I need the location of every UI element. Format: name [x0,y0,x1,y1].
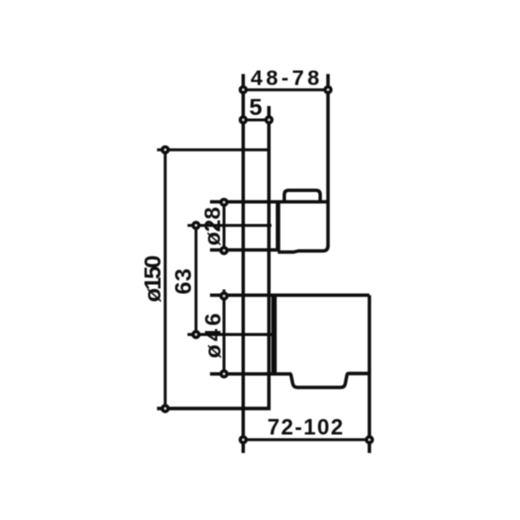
terminator dot 5 right [266,117,272,123]
lower handle front face / extension line [368,295,371,453]
lower handle bottom edge with spout notch / extension line [210,374,369,388]
svg-text:ø46: ø46 [201,313,226,358]
svg-text:63: 63 [170,269,196,295]
extension line o150 top [157,148,271,151]
terminator dot o28 bottom [221,248,227,254]
terminator dot o150 top [162,147,168,153]
svg-text:ø150: ø150 [140,255,166,302]
terminator dot o46 top [221,293,227,299]
terminator dot 72-102 left [240,437,246,443]
terminator dot 72-102 right [367,437,373,443]
wall plate back vertical line [241,74,244,453]
dimension line 72-102 [243,438,369,441]
dimension line o28 [223,199,226,254]
dimension line 5 [243,118,269,121]
lower handle top edge / extension line [210,294,369,297]
svg-text:5: 5 [249,94,262,120]
dimension line 63 [195,223,198,338]
svg-text:72-102: 72-102 [267,414,343,439]
terminator dot o150 bottom [162,406,168,412]
lower handle back flange (thick bar) [271,295,276,373]
terminator dot 63 top [193,223,199,229]
upper knob top edge / extension line [210,200,328,203]
dimension line o150 [164,150,167,409]
upper knob bottom edge / extension line [210,248,278,251]
extension line 63 top [188,224,272,227]
dimension line 48-78 [243,88,328,91]
terminator dot 48-78 right [325,87,331,93]
terminator dot o28 top [221,200,227,206]
upper knob top tab [284,190,320,202]
wall plate front vertical line with bottom corner [157,106,269,409]
terminator dot 5 left [240,117,246,123]
extension line 63 bottom [188,333,272,336]
upper knob back edge (thick) [276,202,280,251]
dimension line o46 [223,290,226,378]
terminator dot o46 bottom [221,371,227,377]
terminator dot 63 bottom [193,332,199,338]
upper knob front face / extension line [326,74,329,247]
svg-text:ø28: ø28 [200,207,225,246]
svg-text:48-78: 48-78 [251,66,320,90]
terminator dot 48-78 left [240,87,246,93]
